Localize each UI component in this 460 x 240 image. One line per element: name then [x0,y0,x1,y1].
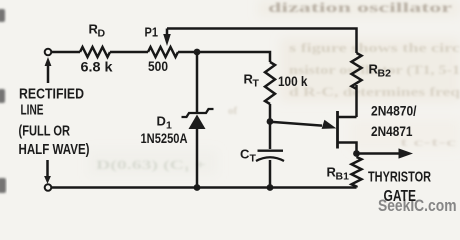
potentiometer P1 [148,47,178,57]
svg-text:100 k: 100 k [278,74,308,89]
wire: D1 to bottom rail [196,129,199,188]
svg-text:P1: P1 [145,26,159,40]
label RT [244,72,260,90]
svg-text:T: T [253,78,260,90]
svg-text:C: C [240,147,250,162]
resistor RD [80,47,110,57]
bottom rail wire [52,186,357,189]
wire: node B to UJT emitter [270,122,322,126]
wire: node down to D1 [196,52,199,113]
svg-text:B2: B2 [378,68,392,80]
svg-text:dization oscillator: dization oscillator [268,1,452,16]
resistor RB2 [352,53,362,89]
svg-text:RECTIFIED: RECTIFIED [19,86,84,102]
label THYRISTOR GATE [368,169,431,206]
arrow to top terminal [45,57,52,83]
svg-text:500: 500 [148,58,168,74]
svg-text:B1: B1 [336,171,350,183]
label RB1 [327,165,350,183]
junction: CT bottom rail [267,184,274,191]
resistor RT [265,62,275,104]
P1 wiper arrow [163,29,171,47]
wire: P1 to RT (main node wire) [178,52,270,62]
wire: CT to bottom rail [269,160,272,188]
label RECTIFIED LINE (FULL OR HALF WAVE) [19,86,90,158]
svg-text:6.8 k: 6.8 k [81,59,113,75]
svg-text:LINE: LINE [21,102,44,118]
wire: RT to node B [269,104,272,122]
transistor Q1 (UJT 2N4870/2N4871) [322,111,357,152]
label D1 [157,114,173,132]
svg-text:D: D [98,28,106,40]
thyristor gate arrow [357,148,414,158]
resistor RB1 [352,157,362,188]
svg-text:1N5250A: 1N5250A [141,131,188,146]
svg-text:d R-C, determines freq: d R-C, determines freq [289,85,460,99]
capacitor CT [256,151,284,161]
node C: base1 / gate / RB1 junction [353,150,360,157]
svg-text:T: T [250,153,257,165]
svg-text:2N4871: 2N4871 [371,123,413,139]
label RB2 [369,62,392,80]
wire: RD to P1 [110,51,148,54]
wire: top terminal to RD [52,51,81,54]
svg-text:THYRISTOR: THYRISTOR [368,169,431,186]
label CT [240,147,257,165]
svg-text:2N4870/: 2N4870/ [371,103,417,119]
label 2N4870/2N4871 [371,103,417,140]
svg-text:1: 1 [166,120,172,132]
wire: CT top lead [269,122,272,150]
svg-text:s figure shows the circ: s figure shows the circ [289,41,460,55]
terminal: rectified line bottom [45,184,52,191]
svg-text:D: D [157,114,166,129]
svg-text:D(0.63) (C₁ +: D(0.63) (C₁ + [96,158,206,172]
node B: RT / CT / emitter junction [267,118,274,125]
wire: RB2 to Q1 base 2 [355,85,358,117]
svg-text:HALF WAVE): HALF WAVE) [19,142,90,158]
svg-text:of: of [228,105,238,117]
junction: D1 bottom rail [194,184,201,191]
label RD [89,22,106,40]
wire: P1 wiper bus to RB2 top [167,29,357,54]
zener diode D1 [182,109,214,129]
terminal: rectified line top [45,49,52,56]
node: P1 / D1 junction [194,49,201,56]
arrow to bottom terminal [44,160,51,184]
svg-text:(FULL OR: (FULL OR [19,124,71,140]
svg-text:GATE: GATE [384,188,417,205]
